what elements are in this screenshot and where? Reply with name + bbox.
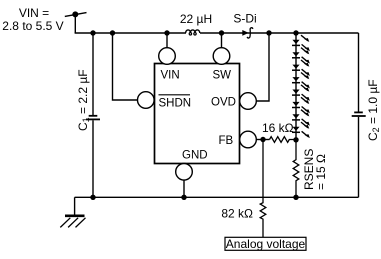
LED D3 xyxy=(292,60,310,76)
junction C1 top xyxy=(90,30,95,35)
svg-text:= 15 Ω: = 15 Ω xyxy=(314,154,328,190)
svg-text:S-Di: S-Di xyxy=(233,12,256,26)
ground symbol xyxy=(60,197,85,227)
junction SW pin tap xyxy=(219,30,224,35)
junction LED string top xyxy=(293,30,298,35)
LED D7 xyxy=(292,110,310,126)
wire ground rail xyxy=(75,196,359,198)
pin VIN xyxy=(159,33,180,82)
svg-text:Analog voltage: Analog voltage xyxy=(226,237,306,251)
wire FB xyxy=(256,139,269,141)
svg-text:SHDN: SHDN xyxy=(159,98,192,110)
LED D5 xyxy=(292,85,310,101)
junction RSENS bottom xyxy=(293,195,298,200)
svg-text:FB: FB xyxy=(219,135,234,147)
junction C1 bottom xyxy=(90,195,95,200)
junction GND pin xyxy=(181,195,186,200)
pin OVD xyxy=(211,93,256,110)
label RSENS value xyxy=(302,149,328,190)
capacitor C2 xyxy=(352,33,366,197)
svg-text:82 kΩ: 82 kΩ xyxy=(221,207,253,221)
LED D6 xyxy=(292,97,310,113)
wire LED string xyxy=(295,33,297,140)
svg-text:OVD: OVD xyxy=(211,97,236,109)
inductor L1 xyxy=(186,30,200,35)
svg-text:VIN =: VIN = xyxy=(19,6,49,20)
junction OVD tap xyxy=(266,30,271,35)
wire VIN terminal drop xyxy=(74,14,76,33)
node Analog voltage xyxy=(225,237,306,251)
pin SW xyxy=(213,33,232,82)
resistor R2 82k xyxy=(260,140,266,238)
wire top rail left xyxy=(75,31,186,34)
LED D2 xyxy=(292,48,310,64)
wire OVD xyxy=(256,33,269,101)
svg-text:GND: GND xyxy=(182,150,208,162)
pin FB xyxy=(219,131,257,148)
LED D4 xyxy=(292,73,310,89)
LED D8 xyxy=(292,122,310,138)
diode D0 S-Di xyxy=(242,28,253,38)
capacitor C1 xyxy=(86,33,100,197)
pin GND xyxy=(176,150,208,198)
IC U1 body xyxy=(155,64,240,164)
resistor RSENS xyxy=(293,140,299,198)
svg-text:SW: SW xyxy=(213,70,232,82)
resistor R1 16k xyxy=(270,137,297,143)
wire top rail right xyxy=(200,32,359,34)
terminal VIN input xyxy=(65,11,87,17)
svg-text:22 µH: 22 µH xyxy=(180,12,212,26)
pin SHDN xyxy=(138,92,192,110)
junction FB tap xyxy=(260,137,265,142)
junction VIN pin tap xyxy=(164,30,169,35)
svg-text:16 kΩ: 16 kΩ xyxy=(262,121,294,135)
junction SHDN tap xyxy=(110,30,115,35)
svg-text:VIN: VIN xyxy=(161,70,180,82)
svg-text:2.8 to 5.5 V: 2.8 to 5.5 V xyxy=(2,19,63,33)
junction LED string bottom xyxy=(293,137,298,142)
wire SHDN xyxy=(113,33,138,100)
LED D1 xyxy=(292,35,310,51)
label VIN supply xyxy=(2,6,63,33)
